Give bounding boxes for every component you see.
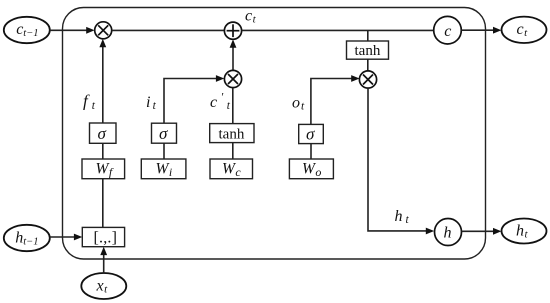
svg-text:tanh: tanh [355, 43, 381, 59]
tanh box (output activation) [347, 41, 389, 59]
svg-text:tanh: tanh [219, 127, 245, 143]
svg-text:h: h [444, 225, 452, 242]
svg-text:it: it [146, 94, 157, 112]
wire circle h to node h_t [462, 228, 502, 235]
wire tanh box to X3 [367, 59, 369, 71]
cell body rounded rectangle [63, 8, 486, 260]
svg-text:ot: ot [292, 95, 305, 113]
svg-text:c′t: c′t [210, 90, 231, 113]
svg-text:ct: ct [245, 8, 257, 26]
wire X3 down and right to circle h [368, 88, 434, 234]
node x_t input ellipse [81, 273, 126, 299]
weight box W_f [82, 159, 125, 179]
plus gate (cell state add) [224, 22, 241, 39]
wire sigma_i to W_i [163, 143, 165, 159]
multiply gate X2 (candidate) [224, 70, 241, 87]
sigma box input [152, 123, 177, 143]
wire sigma_o to W_o [310, 144, 312, 159]
node c_{t-1} input ellipse [4, 17, 50, 43]
wire input sigma elbow to X2 [164, 75, 224, 123]
svg-text:[.,.]: [.,.] [94, 230, 118, 247]
svg-text:σ: σ [306, 125, 315, 144]
concat box [.,.] [82, 227, 124, 246]
node c_t output ellipse [502, 17, 547, 43]
circle c (cell state out) [434, 16, 462, 44]
multiply gate X1 (forget) [95, 22, 112, 39]
circle h (hidden state out) [435, 219, 462, 246]
wire circle c to node c_t [461, 27, 501, 34]
wire sigma_f to W_f [102, 143, 104, 159]
wire output sigma elbow to X3 [311, 75, 360, 124]
weight box W_i [141, 159, 186, 179]
wire c line down to tanh box [367, 31, 369, 41]
node h_{t-1} input ellipse [4, 225, 50, 251]
multiply gate X3 (output) [359, 71, 376, 88]
weight box W_o [289, 159, 333, 179]
svg-text:σ: σ [98, 124, 107, 143]
svg-text:ht: ht [395, 208, 410, 226]
node h_t output ellipse [502, 219, 547, 244]
wire W_f down to concat box [102, 179, 104, 228]
wire X1 to plus [112, 29, 225, 31]
wire multiply X2 up to plus [230, 39, 237, 70]
wire tanh_c to W_c [232, 143, 234, 159]
svg-text:ft: ft [83, 92, 96, 113]
tanh box candidate [210, 124, 254, 143]
wire x_t up to concat box [100, 247, 107, 273]
svg-text:σ: σ [159, 124, 168, 143]
sigma box forget [90, 123, 117, 143]
weight box W_c [210, 159, 253, 179]
svg-text:c: c [444, 23, 451, 40]
wire plus to circle c [242, 29, 434, 31]
wire h_{t-1} to concat box [50, 234, 83, 241]
wire forget sigma up to X1 [99, 39, 106, 123]
sigma box output [299, 124, 324, 143]
wire tanh (candidate) up to X2 [232, 88, 234, 124]
wire c_{t-1} to forget multiply [50, 27, 95, 34]
